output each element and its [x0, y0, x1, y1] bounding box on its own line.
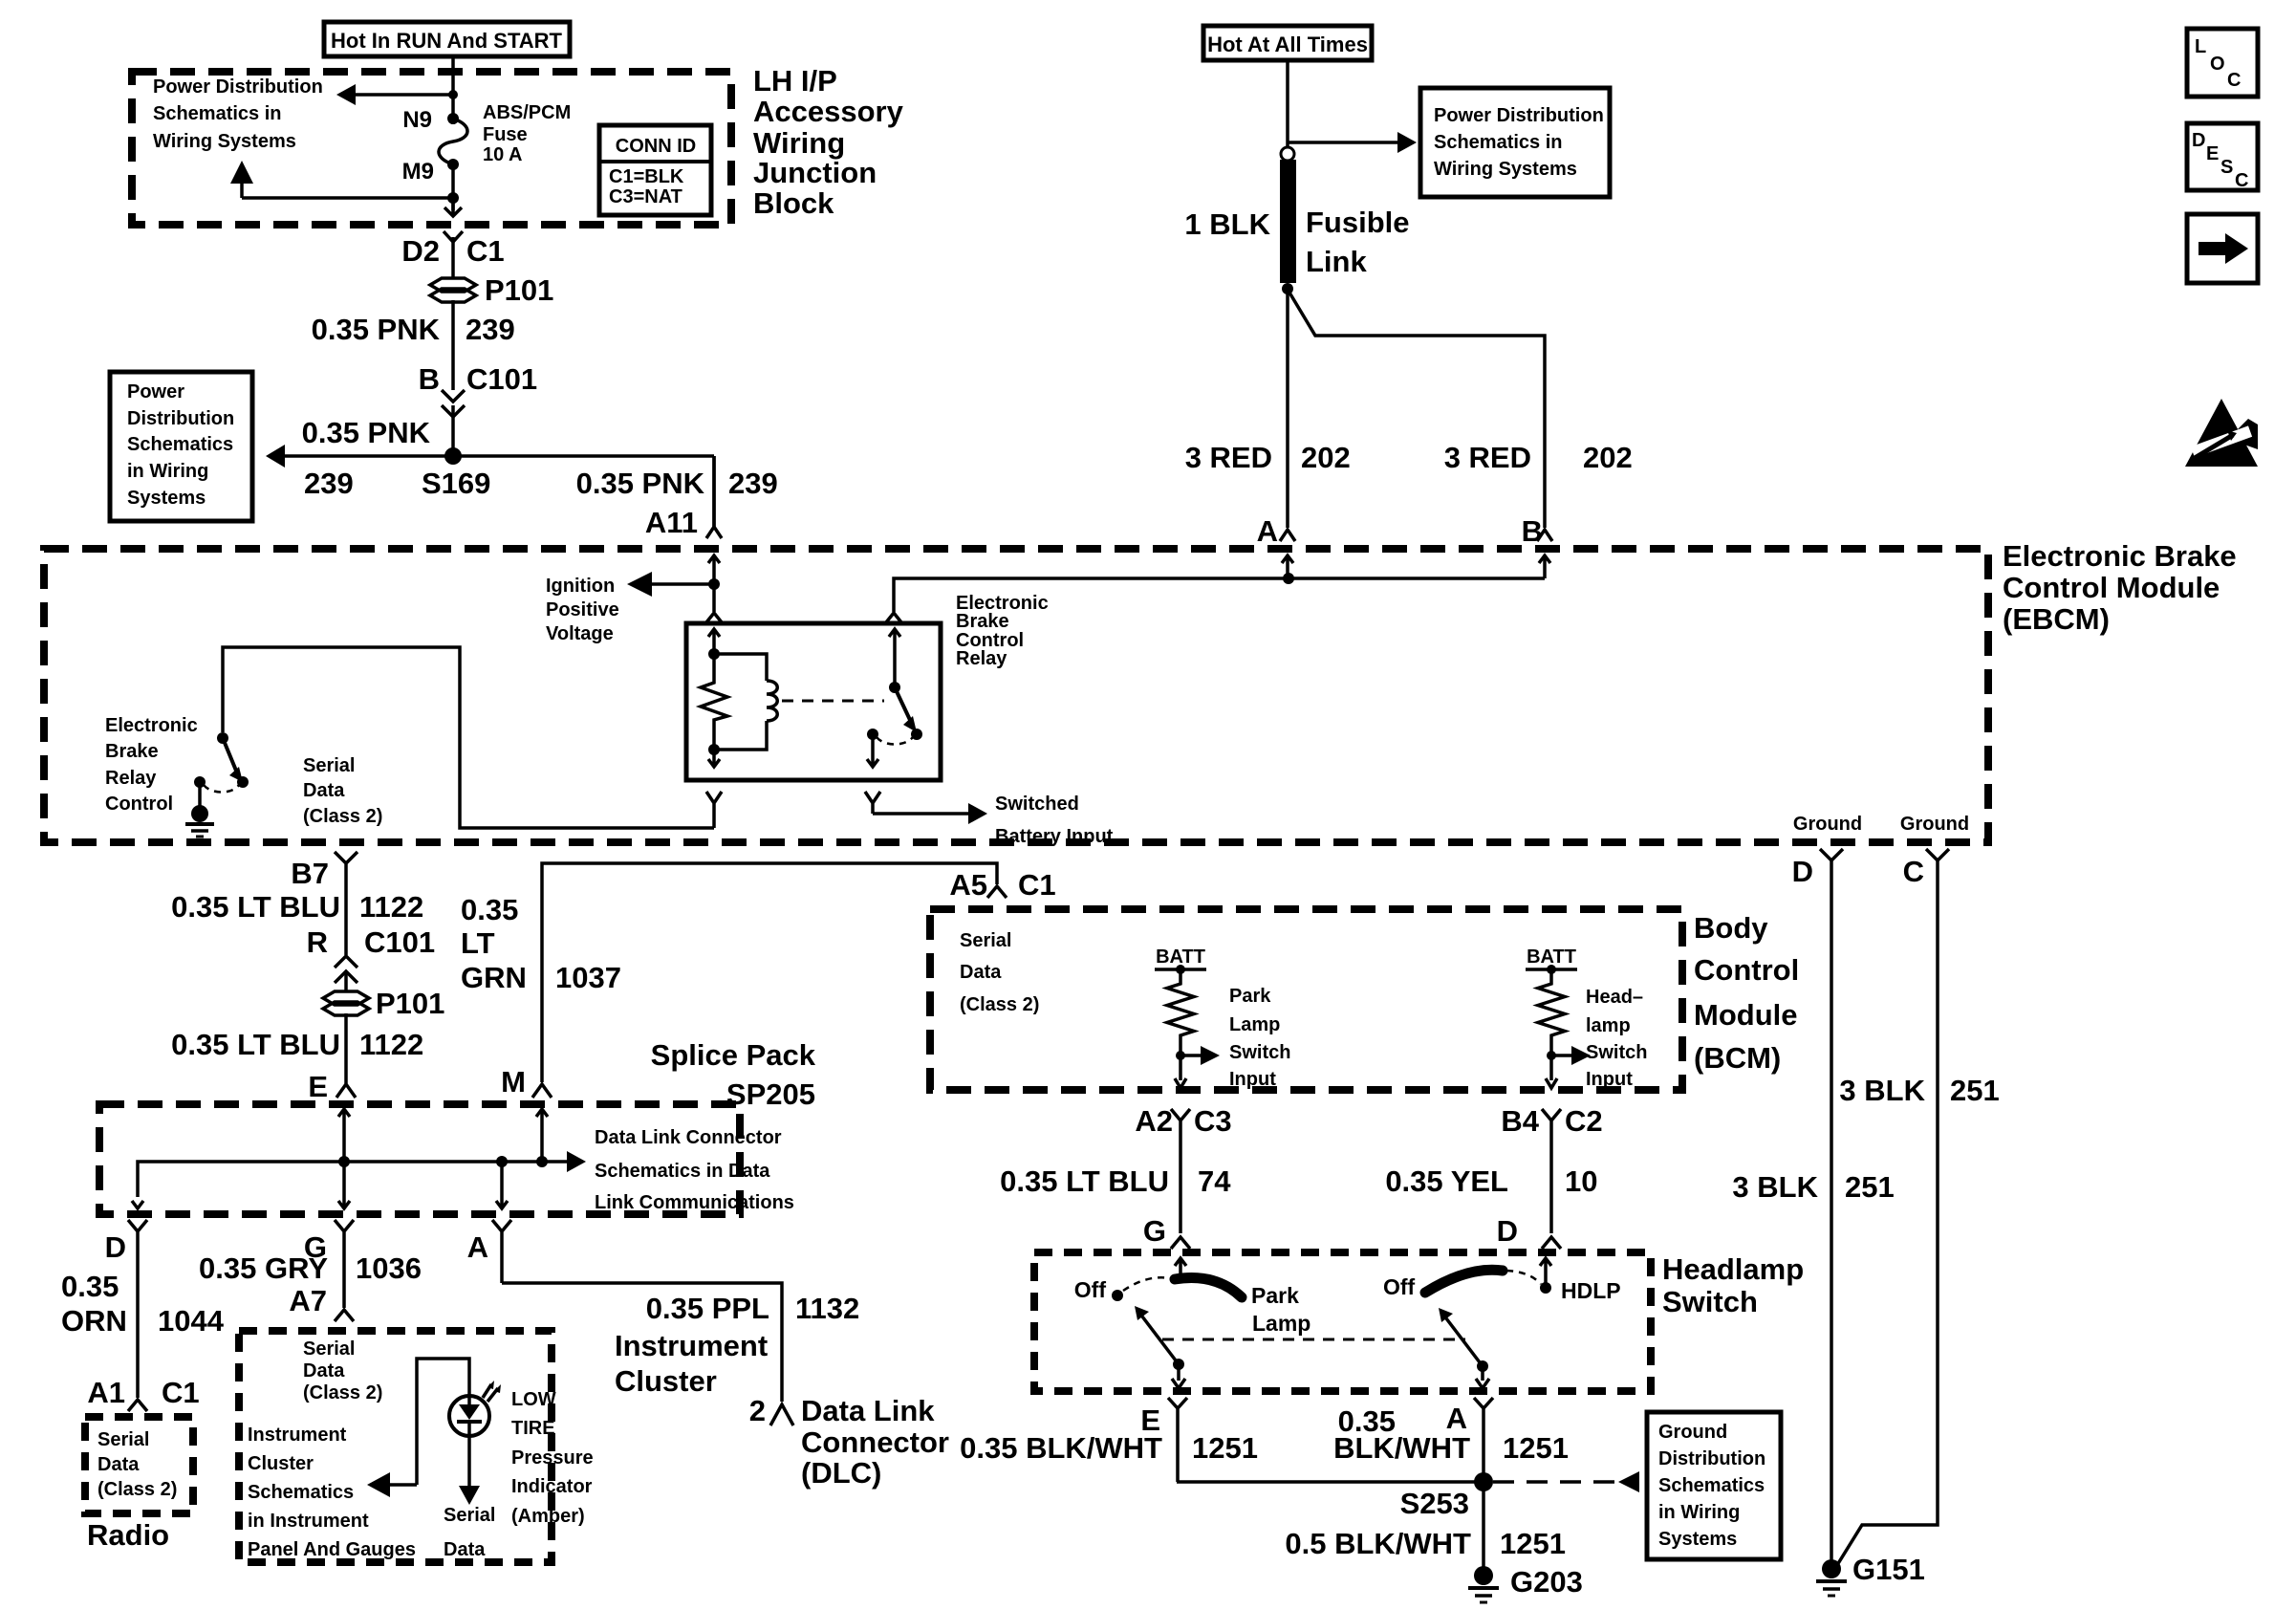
connector fork B4 below BCM	[1542, 1109, 1561, 1233]
svg-text:Wiring Systems: Wiring Systems	[153, 131, 296, 152]
svg-text:Cluster: Cluster	[615, 1364, 717, 1398]
label: Off (headlamp)	[1383, 1274, 1416, 1299]
svg-text:Power: Power	[127, 381, 184, 402]
connector fork A below splice	[492, 1220, 511, 1283]
svg-text:Splice Pack: Splice Pack	[651, 1038, 816, 1072]
input tap arrow (headlamp)	[1551, 1046, 1591, 1065]
svg-text:10 A: 10 A	[483, 144, 523, 165]
pin arrow A out of headlamp switch	[1476, 1366, 1489, 1388]
label: Park Lamp Switch Input	[1229, 986, 1290, 1090]
svg-text:BATT: BATT	[1156, 946, 1205, 968]
svg-text:O: O	[2210, 54, 2225, 75]
svg-text:Data: Data	[97, 1454, 140, 1475]
svg-text:in Wiring: in Wiring	[127, 461, 208, 482]
svg-text:C3: C3	[1194, 1104, 1232, 1138]
pin labels D2 / C1	[401, 234, 504, 268]
svg-text:G203: G203	[1510, 1565, 1583, 1599]
svg-text:0.35 PNK: 0.35 PNK	[576, 467, 705, 500]
label: Electronic Brake Control Module (EBCM)	[2003, 539, 2237, 636]
svg-text:Serial: Serial	[960, 930, 1011, 951]
svg-text:M: M	[501, 1065, 526, 1099]
svg-text:Switch: Switch	[1229, 1042, 1290, 1063]
svg-text:C: C	[1903, 855, 1924, 888]
svg-text:C1: C1	[162, 1376, 200, 1409]
input tap arrow (park lamp)	[1180, 1046, 1220, 1065]
connector fork at A7 (instrument cluster)	[335, 1310, 354, 1321]
junction node bus at A	[496, 1156, 508, 1167]
connector fork at D (headlamp switch)	[1542, 1237, 1561, 1249]
reference box: Power Distribution Schematics in Wiring Systems (top right)	[1420, 88, 1610, 197]
wire labels 0.35 YEL 10	[1385, 1164, 1597, 1198]
svg-text:(Class 2): (Class 2)	[97, 1479, 177, 1500]
svg-text:D2: D2	[401, 234, 440, 268]
svg-text:0.35 GRY: 0.35 GRY	[199, 1251, 328, 1285]
svg-text:1036: 1036	[356, 1251, 422, 1285]
icon: LOC box	[2187, 29, 2258, 97]
detent dashed arc (park)	[1123, 1277, 1170, 1291]
park lamp contact arc	[1175, 1278, 1242, 1297]
svg-text:1251: 1251	[1192, 1431, 1258, 1465]
wire: P101 to splice pack pin E	[344, 1013, 348, 1082]
label: Head-lamp Switch Input	[1586, 987, 1647, 1090]
svg-text:Park: Park	[1229, 986, 1271, 1007]
wire: splice A to DLC pin 2 (0.35 PPL 1132)	[502, 1283, 782, 1402]
svg-text:Serial: Serial	[303, 1338, 355, 1360]
connector fork G below splice	[335, 1220, 354, 1308]
svg-text:74: 74	[1198, 1164, 1231, 1198]
svg-text:Instrument: Instrument	[615, 1329, 768, 1362]
inline connector C101 (R) symbol	[335, 956, 357, 983]
svg-text:P101: P101	[485, 273, 553, 307]
svg-text:D: D	[1792, 855, 1813, 888]
svg-text:A: A	[1446, 1402, 1467, 1435]
svg-text:3 BLK: 3 BLK	[1839, 1074, 1925, 1107]
reference box: Ground Distribution Schematics in Wiring Systems	[1647, 1412, 1781, 1559]
connector fork into relay (right)	[886, 613, 901, 622]
headlamp Off contact arc	[1425, 1270, 1503, 1293]
svg-text:C101: C101	[364, 925, 435, 959]
svg-text:Indicator: Indicator	[511, 1476, 593, 1497]
svg-text:Ignition: Ignition	[546, 576, 615, 597]
svg-text:1251: 1251	[1503, 1431, 1569, 1465]
reference dashed wire to Ground Distribution	[1493, 1471, 1639, 1492]
svg-text:(Class 2): (Class 2)	[960, 994, 1039, 1015]
wire labels 0.35 LT GRN 1037	[461, 893, 621, 994]
svg-text:E: E	[2206, 143, 2219, 164]
svg-text:Serial: Serial	[303, 755, 355, 776]
inline connector C101 (B) symbol	[442, 390, 465, 417]
wire labels 0.35 ORN 1044	[61, 1270, 225, 1338]
svg-text:Head–: Head–	[1586, 987, 1643, 1008]
instrument cluster dashed box	[239, 1331, 552, 1562]
power flag: Hot In RUN And START	[324, 22, 570, 56]
svg-text:Distribution: Distribution	[127, 408, 234, 429]
splice pack dashed box	[99, 1104, 740, 1214]
label: Electronic Brake Control Relay	[956, 593, 1049, 669]
icon: ESD warning symbol	[2185, 399, 2258, 467]
pin fork D (EBCM ground)	[1820, 849, 1843, 860]
pin label D	[1497, 1214, 1518, 1248]
svg-text:Control: Control	[105, 794, 173, 815]
connector fork at A1 (radio)	[128, 1400, 147, 1411]
LED: LOW TIRE Pressure Indicator (Amber)	[449, 1381, 501, 1436]
wire: D2 to P101	[451, 237, 455, 279]
svg-text:Serial: Serial	[444, 1505, 495, 1526]
svg-text:N9: N9	[402, 107, 432, 133]
relay actuating dashed link	[782, 700, 884, 703]
svg-text:C1: C1	[1018, 868, 1056, 902]
pin arrow A into EBCM	[1282, 555, 1293, 578]
junction node headlamp input	[1547, 1051, 1556, 1060]
svg-text:3 BLK: 3 BLK	[1732, 1170, 1818, 1204]
connector fork at M (splice pack)	[532, 1084, 552, 1098]
svg-text:Ground: Ground	[1900, 814, 1969, 835]
svg-text:Schematics: Schematics	[127, 434, 233, 455]
pin fork B7 below EBCM	[335, 852, 357, 955]
svg-text:Data Link: Data Link	[801, 1394, 935, 1427]
svg-text:Lamp: Lamp	[1229, 1014, 1280, 1035]
svg-text:0.35 PNK: 0.35 PNK	[302, 416, 431, 449]
pin labels A5 / C1 (BCM)	[949, 868, 1055, 902]
svg-text:1132: 1132	[795, 1292, 859, 1325]
svg-text:Serial: Serial	[97, 1429, 149, 1450]
svg-text:Brake: Brake	[105, 741, 159, 762]
pin arrow B into EBCM	[1539, 555, 1550, 578]
svg-text:Block: Block	[753, 186, 834, 220]
pin label E	[308, 1070, 328, 1103]
pin label G	[1143, 1214, 1166, 1248]
reference arrow: Power Distribution Schematics in Wiring Systems (in junction block)	[153, 76, 453, 152]
svg-text:L: L	[2195, 36, 2206, 57]
label: Splice Pack SP205	[651, 1038, 816, 1111]
svg-text:B: B	[419, 362, 440, 396]
wire labels 3 RED 202 (A)	[1185, 441, 1351, 474]
pin labels A2 / C3	[1135, 1104, 1231, 1138]
svg-text:Control Module: Control Module	[2003, 571, 2220, 604]
svg-text:Data: Data	[444, 1539, 486, 1560]
svg-text:Schematics: Schematics	[1658, 1475, 1765, 1496]
svg-text:0.35: 0.35	[461, 893, 518, 926]
relay coil	[714, 654, 777, 750]
junction node: flag feed / ref arrow	[448, 90, 458, 99]
svg-text:1122: 1122	[359, 890, 423, 924]
svg-text:Distribution: Distribution	[1658, 1448, 1765, 1469]
wire labels 0.35 BLK/WHT 1251 (E)	[960, 1431, 1258, 1465]
svg-text:Input: Input	[1586, 1069, 1633, 1090]
svg-text:Link: Link	[1306, 245, 1367, 278]
pin label A (EBCM)	[1257, 514, 1278, 548]
pin label B (EBCM)	[1522, 514, 1543, 548]
svg-text:LT: LT	[461, 926, 495, 960]
svg-text:A5: A5	[949, 868, 987, 902]
svg-text:0.5 BLK/WHT: 0.5 BLK/WHT	[1285, 1527, 1471, 1560]
svg-text:0.35 PNK: 0.35 PNK	[312, 313, 441, 346]
ground G151	[1816, 1553, 1925, 1596]
wire: S169 to A11	[712, 456, 716, 528]
BATT rail (park lamp pull-up)	[1155, 946, 1206, 974]
relay switch	[867, 629, 922, 745]
svg-text:251: 251	[1950, 1074, 2000, 1107]
pin label M	[501, 1065, 526, 1099]
relay coil output arrow (bottom left)	[708, 750, 720, 767]
svg-text:Module: Module	[1694, 998, 1798, 1032]
svg-text:0.35 LT BLU: 0.35 LT BLU	[171, 890, 340, 924]
svg-text:1037: 1037	[555, 961, 621, 994]
wire labels 0.35 PPL 1132	[646, 1292, 860, 1325]
junction node bus at A	[1283, 573, 1294, 584]
svg-text:Ground: Ground	[1658, 1422, 1727, 1443]
label: Ground Ground (EBCM pins)	[1793, 814, 1969, 835]
svg-text:A: A	[467, 1230, 488, 1264]
svg-text:239: 239	[728, 467, 778, 500]
svg-text:Hot In RUN And START: Hot In RUN And START	[331, 29, 563, 53]
EBCM dashed module box	[44, 549, 1988, 842]
svg-text:A11: A11	[645, 506, 698, 539]
pin labels A1 / C1	[87, 1376, 199, 1409]
svg-text:in Instrument: in Instrument	[248, 1511, 369, 1532]
svg-text:SP205: SP205	[726, 1077, 815, 1111]
reference box: Power Distribution Schematics in Wiring Systems (left)	[110, 372, 252, 521]
pin arrow E into splice pack	[338, 1109, 350, 1162]
label: Park Lamp	[1251, 1283, 1310, 1336]
svg-text:LH I/P: LH I/P	[753, 64, 837, 98]
svg-text:Link Communications: Link Communications	[595, 1192, 794, 1213]
svg-text:Wiring Systems: Wiring Systems	[1434, 159, 1577, 180]
connector fork at A11 (EBCM)	[706, 456, 722, 538]
svg-text:Pressure: Pressure	[511, 1447, 594, 1469]
pin arrow D into headlamp switch (HDLP stub)	[1540, 1258, 1551, 1288]
svg-text:Data: Data	[960, 962, 1002, 983]
svg-text:0.35: 0.35	[61, 1270, 119, 1303]
wire labels 3 BLK 251 (C)	[1839, 1074, 1999, 1107]
svg-text:Panel And Gauges: Panel And Gauges	[248, 1539, 416, 1560]
icon: DESC box	[2187, 123, 2258, 191]
ground symbol (relay control, inside EBCM)	[185, 782, 214, 837]
label: Radio	[87, 1518, 169, 1552]
svg-text:in Wiring: in Wiring	[1658, 1502, 1740, 1523]
svg-text:S253: S253	[1400, 1487, 1469, 1520]
splice S253	[1400, 1472, 1493, 1520]
label: Serial Data (Class 2) (EBCM)	[303, 755, 382, 827]
svg-text:BATT: BATT	[1527, 946, 1576, 968]
junction node relay coil bottom	[708, 744, 720, 755]
park lamp switch arm	[1135, 1306, 1184, 1370]
svg-text:G151: G151	[1852, 1553, 1925, 1586]
detent dashed arc (headlamp)	[1506, 1271, 1541, 1284]
pin arrow A2 out of BCM	[1175, 1055, 1186, 1088]
pin arrow A out of splice pack	[496, 1162, 508, 1208]
radio dashed box	[85, 1417, 193, 1513]
wire: Hot At All Times down to fusible link	[1286, 60, 1289, 148]
pin label E	[1140, 1403, 1160, 1437]
wire: link to EBCM pin A (3 RED 202)	[1286, 289, 1289, 528]
pin labels D / C	[1792, 855, 1924, 888]
LH I/P junction block dashed box	[132, 72, 731, 225]
svg-text:ORN: ORN	[61, 1304, 127, 1338]
svg-text:Body: Body	[1694, 911, 1768, 945]
svg-text:LOW: LOW	[511, 1389, 556, 1410]
connector fork E below headlamp switch	[1168, 1398, 1187, 1482]
relay switch output arrow (bottom right)	[867, 734, 878, 767]
svg-text:202: 202	[1583, 441, 1633, 474]
headlamp switch dashed box	[1034, 1252, 1651, 1391]
svg-text:Schematics: Schematics	[248, 1482, 354, 1503]
wire: link to EBCM pin B (elbow)	[1289, 293, 1545, 528]
svg-text:A1: A1	[87, 1376, 125, 1409]
svg-text:0.35 BLK/WHT: 0.35 BLK/WHT	[960, 1431, 1162, 1465]
pin arrow G out of splice pack	[338, 1162, 350, 1208]
pin fork C (EBCM ground)	[1926, 849, 1949, 860]
connector fork D below splice	[128, 1220, 147, 1398]
svg-text:P101: P101	[376, 987, 444, 1020]
wire labels 0.35 LT BLU 1122 (upper)	[171, 890, 423, 924]
svg-text:Connector: Connector	[801, 1425, 949, 1459]
wire: BCM A5 serial data run to splice pack M	[542, 863, 997, 1082]
reference arrow left (cluster schematics)	[367, 1472, 417, 1497]
junction node bus at G	[338, 1156, 350, 1167]
svg-text:1 BLK: 1 BLK	[1184, 207, 1270, 241]
icon: arrow box	[2187, 214, 2258, 283]
wire: flag to fuse N9	[451, 56, 455, 124]
relay box: Electronic Brake Control Relay	[686, 623, 941, 780]
svg-text:S169: S169	[422, 467, 490, 500]
svg-text:C3=NAT: C3=NAT	[609, 186, 682, 207]
svg-text:D: D	[2192, 130, 2205, 151]
svg-text:Ground: Ground	[1793, 814, 1862, 835]
svg-text:Data: Data	[303, 1360, 345, 1382]
svg-text:HDLP: HDLP	[1561, 1278, 1621, 1303]
wire labels 0.35 BLK/WHT 1251 (A)	[1333, 1404, 1569, 1465]
svg-text:A: A	[1257, 514, 1278, 548]
svg-text:ABS/PCM: ABS/PCM	[483, 102, 571, 123]
svg-text:(Class 2): (Class 2)	[303, 1382, 382, 1403]
svg-text:Electronic Brake: Electronic Brake	[2003, 539, 2237, 573]
pin labels D G A	[105, 1230, 488, 1264]
connector pass-through P101 (grommet)	[430, 273, 553, 307]
svg-text:1044: 1044	[158, 1304, 225, 1338]
fuse: ABS/PCM Fuse 10 A (N9-M9)	[402, 102, 572, 185]
svg-text:Switched: Switched	[995, 794, 1079, 815]
reference arrow: Ignition Positive Voltage	[546, 572, 714, 644]
connector fork at E (splice pack)	[336, 1082, 356, 1098]
svg-text:Off: Off	[1383, 1274, 1416, 1299]
svg-text:Cluster: Cluster	[248, 1453, 314, 1474]
svg-text:Battery Input: Battery Input	[995, 826, 1114, 847]
svg-text:Power Distribution: Power Distribution	[153, 76, 323, 98]
svg-text:C1=BLK: C1=BLK	[609, 166, 684, 187]
reference arrow up-left inside junction block	[230, 161, 453, 198]
svg-text:E: E	[308, 1070, 328, 1103]
reference arrow right: Power Distribution Schematics in Wiring Systems	[1288, 132, 1417, 153]
park lamp Off contact	[1074, 1277, 1123, 1302]
junction node below fuse	[447, 192, 459, 204]
svg-text:Systems: Systems	[127, 488, 206, 509]
svg-text:CONN ID: CONN ID	[616, 136, 696, 157]
svg-text:(Amber): (Amber)	[511, 1506, 585, 1527]
svg-text:Switch: Switch	[1662, 1285, 1758, 1318]
svg-text:Relay: Relay	[956, 648, 1007, 669]
svg-text:Schematics in: Schematics in	[1434, 132, 1563, 153]
junction node park lamp input	[1176, 1051, 1185, 1060]
pin arrow D out of splice pack	[132, 1201, 143, 1208]
connector fork below relay (left)	[706, 792, 722, 828]
svg-text:M9: M9	[402, 159, 434, 185]
pin label 2	[749, 1394, 766, 1427]
svg-text:Voltage: Voltage	[546, 623, 614, 644]
label: LH I/P Accessory Wiring Junction Block	[753, 64, 904, 220]
label: Electronic Brake Relay Control	[105, 715, 198, 815]
resistor: headlamp switch input pull-up	[1538, 969, 1565, 1055]
svg-text:Instrument: Instrument	[248, 1425, 347, 1446]
pin labels B7	[291, 857, 329, 890]
svg-text:Schematics in: Schematics in	[153, 103, 282, 124]
svg-text:10: 10	[1565, 1164, 1597, 1198]
svg-text:GRN: GRN	[461, 961, 527, 994]
pin label A7	[289, 1284, 327, 1317]
svg-text:Brake: Brake	[956, 611, 1009, 632]
svg-text:Switch: Switch	[1586, 1042, 1647, 1063]
svg-text:Hot At All Times: Hot At All Times	[1207, 33, 1368, 56]
svg-text:0.35 PPL: 0.35 PPL	[646, 1292, 769, 1325]
connector fork at pin A	[1280, 530, 1295, 541]
svg-text:Lamp: Lamp	[1252, 1311, 1310, 1336]
pin arrow G into headlamp switch	[1175, 1258, 1186, 1279]
pin labels R / C101	[307, 925, 436, 959]
label: Serial Data (Class 2) (cluster)	[303, 1338, 382, 1403]
svg-text:3 RED: 3 RED	[1185, 441, 1272, 474]
svg-text:Power Distribution: Power Distribution	[1434, 105, 1604, 126]
svg-text:Input: Input	[1229, 1069, 1276, 1090]
svg-text:C2: C2	[1565, 1104, 1603, 1138]
svg-text:D: D	[1497, 1214, 1518, 1248]
svg-text:Park: Park	[1251, 1283, 1299, 1308]
svg-text:3 RED: 3 RED	[1444, 441, 1531, 474]
svg-text:lamp: lamp	[1586, 1015, 1631, 1036]
wire: S253 to ground G203	[1482, 1482, 1485, 1568]
svg-text:Wiring: Wiring	[753, 126, 845, 160]
svg-text:D: D	[105, 1230, 126, 1264]
reference arrow: Switched Battery Input	[873, 794, 1114, 847]
wire labels 0.35 LT BLU 1122 (lower)	[171, 1028, 423, 1061]
wire: P101 to C101	[451, 300, 455, 390]
svg-text:G: G	[1143, 1214, 1166, 1248]
label: Serial Data (Class 2) (BCM)	[960, 930, 1039, 1015]
svg-text:C: C	[2227, 70, 2241, 91]
resistor (relay suppression)	[701, 654, 727, 749]
svg-text:Off: Off	[1074, 1277, 1107, 1302]
fusible link terminal circle	[1281, 147, 1294, 161]
svg-text:C1: C1	[466, 234, 505, 268]
svg-text:Fuse: Fuse	[483, 124, 528, 145]
wire: S169 horizontal with ref arrow left	[266, 445, 714, 468]
svg-text:C: C	[2235, 170, 2248, 191]
svg-text:239: 239	[304, 467, 354, 500]
wire labels 0.35 GRY 1036	[199, 1251, 422, 1285]
label: LOW TIRE Pressure Indicator (Amber)	[511, 1389, 594, 1527]
svg-text:Accessory: Accessory	[753, 95, 904, 128]
svg-text:0.35 LT BLU: 0.35 LT BLU	[1000, 1164, 1169, 1198]
svg-text:1122: 1122	[359, 1028, 423, 1061]
connector fork at DLC pin 2	[770, 1404, 793, 1425]
connector fork at A5 (BCM)	[987, 886, 1007, 898]
wire label 0.35 PNK 239	[312, 313, 515, 346]
svg-text:Radio: Radio	[87, 1518, 169, 1552]
wire labels 0.5 BLK/WHT 1251	[1285, 1527, 1566, 1560]
junction node below fusible link	[1282, 283, 1293, 294]
splice bus (SP205)	[138, 1162, 542, 1197]
ground G203	[1468, 1565, 1583, 1602]
relay control switch (Electronic Brake Relay Control)	[194, 732, 249, 793]
